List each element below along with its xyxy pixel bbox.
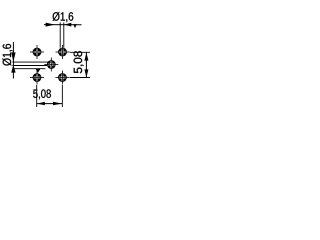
arrow down (right dim)	[84, 69, 88, 77]
leader line to pad P4	[12, 68, 45, 70]
dimension line (bottom)	[37, 103, 63, 105]
extension line (bottom dim, left)	[36, 85, 38, 107]
extension line (bottom dim, right)	[61, 85, 63, 107]
pad P1 top-left	[30, 45, 44, 59]
extension line (right dim, lower)	[70, 77, 90, 79]
leader arrow down at P4	[36, 69, 41, 73]
extension line (left dim, upper)	[12, 61, 48, 63]
pad P3 center	[44, 58, 58, 72]
arrow down (left dim)	[11, 52, 15, 62]
pad P4 bottom-left	[30, 71, 44, 85]
extension line (right dim, upper)	[70, 51, 90, 53]
arrow up (right dim)	[84, 52, 88, 60]
dimension label Ø1,6 (left, rotated)	[2, 44, 12, 66]
arrow right (bottom dim)	[53, 102, 62, 106]
extension line (top dim, left)	[59, 22, 61, 47]
arrow up (left dim)	[11, 65, 15, 73]
arrow right (top dim)	[64, 23, 71, 27]
extension line (left dim, lower)	[12, 65, 47, 67]
dimension line (top)	[44, 24, 82, 26]
dimension line (left)	[12, 42, 14, 79]
dimension label Ø1,6 (top)	[53, 12, 74, 22]
arrow left (bottom dim)	[37, 102, 45, 106]
leader tick (top dim tail)	[73, 24, 76, 28]
extension line (top dim, right)	[63, 22, 65, 47]
pad P5 bottom-right	[55, 71, 69, 85]
arrow left (top dim)	[46, 23, 55, 27]
dimension label 5,08 (bottom)	[33, 89, 51, 99]
pad P2 top-right	[56, 45, 70, 59]
dimension line (right)	[85, 52, 87, 77]
dimension label 5,08 (right, rotated)	[74, 51, 84, 73]
